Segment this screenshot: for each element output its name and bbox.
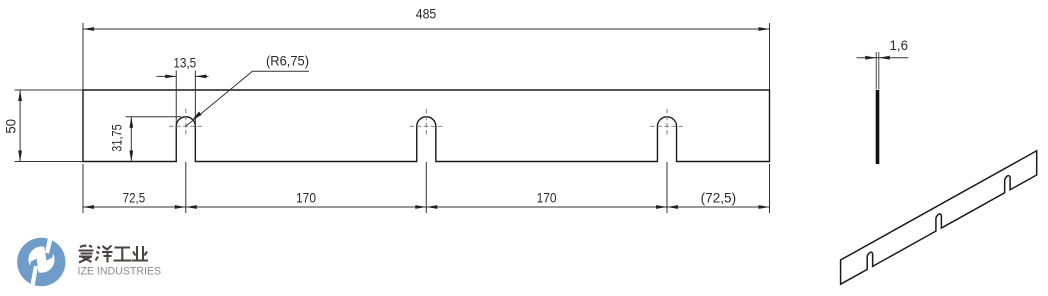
logo blue arm upper (44, 245, 53, 261)
char 工 (114, 248, 132, 261)
logo white notch bottom (31, 266, 38, 286)
bottom dimension arrows (83, 205, 770, 209)
svg-text:72,5: 72,5 (123, 190, 146, 206)
isometric view of plate (841, 151, 1037, 284)
dimension 485 top (83, 23, 770, 90)
slot 2 centerline cross (410, 109, 444, 137)
side view extension lines (876, 52, 879, 90)
char 泽 (96, 246, 113, 263)
svg-text:170: 170 (296, 190, 316, 206)
dimension 50 left (15, 90, 84, 162)
side view plate edge (thickness view) (876, 90, 880, 164)
slot 3 centerline cross (650, 109, 684, 137)
char 业 (132, 246, 149, 261)
svg-text:IZE INDUSTRIES: IZE INDUSTRIES (78, 266, 162, 278)
svg-text:50: 50 (3, 119, 19, 134)
logo white notch top (45, 238, 52, 254)
dimension 13,5 (157, 71, 209, 125)
plate front view outline (83, 90, 770, 162)
logo circle (17, 238, 65, 286)
logo white disc (28, 247, 54, 273)
dimension 31,75 (126, 117, 182, 162)
logo blue arm lower (30, 259, 39, 275)
char 爱 (79, 245, 94, 263)
svg-text:(72,5): (72,5) (701, 190, 737, 206)
bottom dimension line (83, 206, 770, 208)
bottom dimension extension lines (83, 162, 770, 213)
logo chinese text 爱泽工业 (drawn strokes) (79, 245, 149, 263)
slot 1 centerline cross (169, 109, 203, 137)
svg-text:13,5: 13,5 (173, 54, 196, 70)
svg-text:31,75: 31,75 (108, 124, 124, 152)
dimension 1,6 (857, 57, 909, 59)
svg-text:170: 170 (537, 190, 557, 206)
svg-text:485: 485 (416, 6, 437, 22)
svg-text:(R6,75): (R6,75) (266, 53, 309, 69)
radius leader (R6,75) (186, 71, 309, 126)
svg-text:1,6: 1,6 (890, 37, 909, 53)
